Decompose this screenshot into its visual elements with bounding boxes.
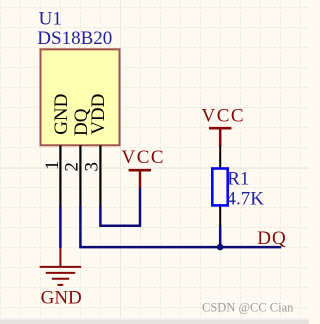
svg-text:1: 1 — [42, 161, 63, 171]
svg-text:DS18B20: DS18B20 — [37, 28, 112, 49]
component body U1 (DS18B20 box) — [41, 49, 120, 145]
svg-text:CSDN @CC Cian: CSDN @CC Cian — [202, 300, 294, 314]
ground symbol — [40, 248, 82, 285]
svg-text:VCC: VCC — [202, 106, 246, 127]
pin 3 lead — [99, 146, 101, 207]
pin 1 lead — [59, 146, 61, 207]
wire resistor bottom to DQ — [219, 226, 222, 247]
svg-text:U1: U1 — [39, 9, 62, 30]
svg-text:VDD: VDD — [88, 94, 109, 135]
resistor R1 bottom lead — [219, 206, 221, 227]
svg-text:DQ: DQ — [257, 228, 286, 249]
power port VCC (right) — [202, 106, 246, 147]
wire pin1 to GND — [59, 206, 62, 249]
resistor R1 body — [212, 169, 227, 206]
pin 2 lead — [79, 146, 81, 207]
junction dot — [217, 244, 224, 251]
svg-text:3: 3 — [81, 162, 102, 172]
wire DQ horizontal — [79, 246, 281, 249]
svg-text:VCC: VCC — [122, 147, 166, 168]
svg-text:GND: GND — [41, 287, 82, 308]
wire pin2 to DQ net (vertical) — [79, 206, 82, 247]
power port VCC (middle) — [122, 147, 166, 188]
wire pin3 to VCC — [99, 187, 141, 227]
svg-text:R1: R1 — [227, 168, 249, 189]
resistor R1 top lead — [219, 146, 221, 168]
svg-text:2: 2 — [62, 162, 83, 172]
svg-text:GND: GND — [51, 94, 72, 135]
svg-text:4.7K: 4.7K — [227, 188, 265, 209]
